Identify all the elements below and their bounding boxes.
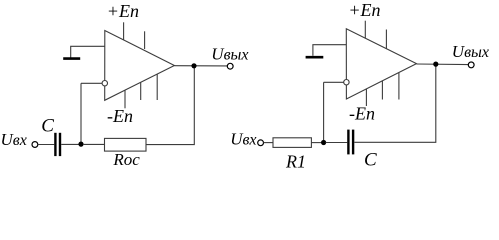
op-amp U2 pin +En (top supply pin)	[364, 21, 366, 39]
label C (left capacitor)	[41, 115, 54, 136]
capacitor C (left input capacitor)	[55, 133, 60, 156]
wire feedback riser left	[80, 83, 82, 144]
wire noninverting input to ground (left)	[71, 46, 105, 57]
svg-text:Roc: Roc	[112, 150, 140, 169]
label C (right capacitor)	[364, 150, 377, 171]
op-amp U2 aux pin (bottom correction pin 2)	[398, 73, 400, 100]
op-amp U1 aux pin (bottom correction pin 2)	[156, 74, 158, 100]
ground (right)	[306, 56, 324, 59]
resistor Roc	[105, 138, 147, 151]
label +En (right)	[348, 0, 380, 20]
svg-text:-En: -En	[349, 104, 375, 124]
op-amp U1 aux pin (top correction pin)	[144, 31, 146, 49]
wire node to resistor Roc	[83, 143, 105, 145]
ground (left)	[63, 57, 80, 60]
wire capacitor to node (left)	[61, 143, 81, 145]
label -En (right)	[349, 104, 375, 124]
wire inverting input (right)	[324, 81, 345, 83]
label Uvyx (left output)	[211, 44, 248, 63]
label Uvyx (right output)	[452, 42, 489, 61]
input terminal (right, open circle)	[258, 140, 264, 146]
svg-text:+En: +En	[348, 0, 380, 20]
wire output (right)	[417, 63, 469, 66]
wire noninverting input to ground (right)	[313, 45, 346, 56]
op-amp U2 (right triangle)	[346, 29, 416, 99]
inversion bubble (right op-amp inverting input)	[344, 80, 349, 85]
wire inverting input (left)	[81, 82, 103, 84]
svg-text:Uвх: Uвх	[1, 130, 27, 149]
node A (left inverting junction dot)	[78, 142, 83, 147]
inversion bubble (left op-amp inverting input)	[102, 81, 107, 86]
svg-text:C: C	[41, 115, 54, 136]
label Uvx (left input)	[1, 130, 27, 149]
output terminal (right, open circle)	[468, 62, 474, 68]
wire resistor R1 to node (right)	[311, 142, 323, 144]
svg-text:Uвых: Uвых	[211, 44, 248, 63]
node B (left output junction dot)	[191, 63, 196, 68]
svg-text:R1: R1	[285, 152, 306, 172]
op-amp U2 aux pin (bottom correction pin 1)	[381, 81, 383, 100]
wire resistor Roc to output riser	[146, 68, 194, 145]
svg-text:C: C	[364, 150, 377, 171]
label R1	[285, 152, 306, 172]
op-amp U1 pin +En (top supply pin)	[123, 22, 125, 40]
op-amp U2 aux pin (top correction pin)	[385, 30, 387, 49]
wire output (left)	[174, 65, 227, 67]
label Uvx (right input)	[230, 130, 256, 149]
node D (right output junction dot)	[433, 62, 438, 67]
label -En (left)	[107, 106, 133, 126]
svg-text:-En: -En	[107, 106, 133, 126]
resistor R1	[273, 138, 311, 148]
op-amp U1 (left triangle)	[105, 31, 175, 101]
capacitor C (right feedback capacitor)	[348, 130, 353, 155]
wire input terminal to resistor R1	[264, 142, 274, 144]
op-amp U1 aux pin (bottom correction pin 1)	[140, 82, 142, 100]
wire capacitor to output riser (right)	[354, 66, 436, 142]
label Roc	[112, 150, 140, 169]
label +En (left)	[107, 1, 139, 21]
op-amp U1 pin -En (bottom supply pin)	[124, 90, 126, 108]
wire input terminal to capacitor (left)	[38, 144, 54, 146]
output terminal (left, open circle)	[227, 63, 233, 69]
node C (right inverting junction dot)	[321, 140, 326, 145]
wire node to capacitor (right)	[326, 142, 348, 144]
wire feedback riser right circuit	[323, 82, 325, 142]
svg-text:Uвых: Uвых	[452, 42, 489, 61]
op-amp U2 pin -En (bottom supply pin)	[365, 89, 367, 106]
input terminal (left, open circle)	[32, 142, 38, 148]
svg-text:+En: +En	[107, 1, 139, 21]
svg-text:Uвх: Uвх	[230, 130, 256, 149]
